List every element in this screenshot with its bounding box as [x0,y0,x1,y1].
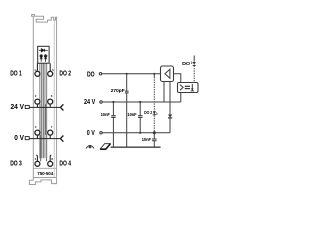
power contacts diode box D1 [38,46,49,63]
LED DO2 symbol [153,111,158,114]
terminal 0V stems [37,135,50,139]
terminal 0V left circle [35,130,40,135]
LED DO 1..4 indicator symbol [191,62,196,66]
junction dot DO2 tap/DO [153,73,155,75]
wire LED indicator top tick [193,56,195,62]
functional earth symbol [86,145,94,148]
optocoupler LED chevron [180,85,183,91]
terminal 24V left circle [35,99,40,104]
capacitor C3 10nF plates [152,138,157,140]
junction dot C2/24V [139,101,141,103]
0V field wire [27,138,60,140]
capacitor 270pF plates [125,90,129,92]
0V supply plug symbol [25,137,29,140]
module housing outline: top latch profile and side walls [32,15,57,181]
svg-text:10nF: 10nF [127,112,136,118]
wire 24V horizontal [102,101,181,103]
wire driver clamp pin [169,82,171,115]
svg-text:10nF: 10nF [101,112,110,118]
svg-text:24 V: 24 V [11,104,25,111]
capacitor C1 10nF plates [111,115,116,117]
optocoupler U2 [178,83,199,93]
terminal 24V stems [37,104,50,107]
wire C3 drop to shield rail [153,141,155,147]
wire DO2 LED tap solid stub [153,74,155,77]
wire driver output to opto LED [174,74,181,83]
module housing upper seam above part number [33,167,56,169]
junction dot 270pF/DO [126,73,128,75]
junction dot C2/0V [139,132,141,134]
wire C1 drop to shield rail [112,118,114,148]
suppressor diode D2 [168,115,172,118]
svg-text:DO 3: DO 3 [10,161,22,168]
wire diode to 0V [169,118,171,133]
diode box twin vertical diodes [40,54,47,62]
terminal DO2 circle [48,71,53,76]
svg-text:DO 1: DO 1 [10,71,22,78]
capacitor C2 10nF plates [138,115,143,117]
svg-text:0 V: 0 V [14,135,24,142]
svg-text:24 V: 24 V [84,99,95,106]
terminal stems row 4 with hooks (pins 4,8) [36,155,51,161]
terminal DO1 circle [35,71,40,76]
wire 24V rise to opto emitter pin [180,93,182,103]
wire C2 drop to 0V [139,118,141,133]
module housing inner seam (right) [53,17,55,177]
diode box horizontal diode [39,49,48,52]
24V supply plug symbol [25,105,29,108]
0V clamp hook [60,136,63,142]
svg-text:10nF: 10nF [142,137,151,143]
node DO terminal circle [99,73,101,75]
optocoupler barrier bars [185,85,190,87]
output driver U1 [161,66,174,82]
24V field wire [27,106,60,108]
terminal DO4 circle [48,161,53,166]
wire C2 drop from 24V [139,102,141,116]
wire 270pF drop from DO [126,74,128,91]
svg-text:DO: DO [182,61,190,67]
wire C1 drop from 24V [112,102,114,116]
wire C3 drop from 0V [153,133,155,139]
module housing bottom DIN-rail foot profile [29,178,56,185]
terminal DO3 circle [35,161,40,166]
junction dot DO2 tap / 0V [153,131,156,134]
wire DO2 LED dashed drop [153,77,155,133]
junction dot C1/24V [112,101,114,103]
terminal 0V right circle [48,130,53,135]
svg-text:DO 4: DO 4 [59,161,71,168]
terminal stems row 1 (pins 1,5) [36,63,51,71]
power jumper contact arrow [100,144,110,150]
svg-text:270pF: 270pF [111,88,125,94]
wire LED indicator dashed drop to opto [193,66,195,83]
terminal 24V right circle [48,99,53,104]
shield rail [111,146,161,148]
node 24V terminal circle [100,101,102,103]
wire DO horizontal [102,73,161,75]
wire driver supply pin to 24V [163,82,165,103]
svg-text:DO 2: DO 2 [59,71,71,78]
svg-text:DO: DO [87,72,95,79]
module housing bottom seam [33,177,56,179]
internal wiring dark pair rows 2-3 [41,104,47,161]
data-bus gray band [39,63,47,158]
svg-text:0 V: 0 V [87,130,95,137]
svg-text:DO 2: DO 2 [144,110,152,116]
node 0V terminal circle [100,132,102,134]
wire 270pF drop to shield rail [126,93,128,147]
svg-text:750-504: 750-504 [37,171,54,176]
wire 0V horizontal [102,132,170,134]
24V clamp hook [60,104,63,110]
optocoupler phototransistor [191,84,193,91]
